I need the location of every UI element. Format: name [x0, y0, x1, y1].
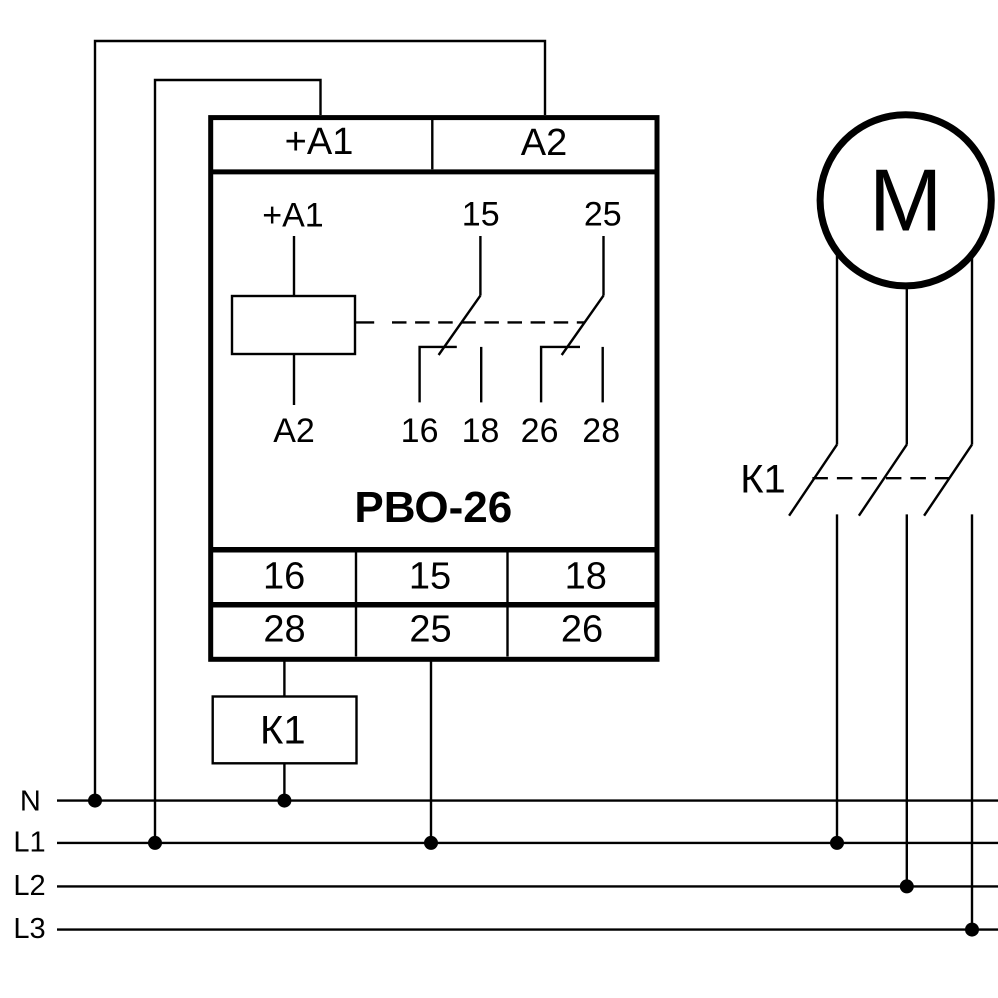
junction dot K1/N — [277, 794, 291, 808]
svg-text:РВО-26: РВО-26 — [354, 483, 512, 532]
wire terminal 18 stub — [480, 347, 482, 403]
svg-text:+A1: +A1 — [262, 196, 323, 234]
svg-text:L3: L3 — [13, 913, 45, 945]
svg-text:A2: A2 — [273, 412, 315, 450]
relay coil — [232, 296, 355, 354]
wire terminal 28 to K1 coil — [283, 660, 285, 697]
wire coil bottom lead — [293, 354, 295, 405]
wire motor phase 1 — [836, 250, 838, 445]
wire pole 3 to L3 — [971, 514, 973, 929]
wire terminal 25 to L1 bus — [430, 660, 432, 843]
svg-text:28: 28 — [263, 608, 305, 650]
coil side lead stub — [356, 321, 375, 323]
wire motor phase 3 — [971, 252, 973, 445]
svg-text:L2: L2 — [13, 870, 45, 902]
svg-text:28: 28 — [582, 412, 620, 450]
terminal table column divider 2 — [506, 553, 508, 657]
svg-text:+A1: +A1 — [285, 121, 354, 163]
terminal table row divider — [211, 602, 657, 608]
wire terminal 16 branch — [420, 347, 457, 403]
junction dot pole2/L2 — [900, 879, 914, 893]
wire terminal 26 branch — [541, 347, 580, 403]
bus line L1 — [57, 842, 998, 844]
terminal table top edge — [211, 547, 657, 553]
contactor K1 pole 3 blade — [924, 445, 972, 516]
svg-text:К1: К1 — [740, 458, 786, 502]
junction dot pole3/L3 — [965, 923, 979, 937]
junction dot 25/L1 — [424, 836, 438, 850]
svg-text:16: 16 — [401, 412, 439, 450]
junction dot W2/L1 — [148, 836, 162, 850]
wire from N bus up and over to terminal A2 — [95, 41, 545, 801]
wire from L1 bus up and over to terminal +A1 — [155, 80, 321, 843]
contactor K1 pole 2 blade — [859, 445, 907, 516]
svg-text:N: N — [20, 786, 41, 818]
svg-text:К1: К1 — [260, 708, 306, 752]
svg-text:A2: A2 — [521, 122, 567, 164]
svg-text:M: M — [869, 151, 942, 250]
contactor coil K1 box — [213, 697, 357, 764]
terminal band separator — [211, 169, 657, 174]
svg-text:25: 25 — [584, 196, 622, 234]
svg-text:15: 15 — [409, 556, 451, 598]
contactor K1 pole 1 blade — [789, 445, 837, 516]
terminal table column divider 1 — [355, 553, 357, 657]
bus line L3 — [57, 928, 998, 930]
wire motor phase 2 — [906, 286, 908, 444]
wire pole 2 to L2 — [906, 514, 908, 886]
svg-text:16: 16 — [263, 556, 305, 598]
contact blade 25 — [562, 296, 604, 355]
svg-text:15: 15 — [462, 196, 500, 234]
svg-text:L1: L1 — [13, 826, 45, 858]
svg-text:25: 25 — [409, 608, 451, 650]
mechanical link (dashed) — [392, 321, 584, 323]
contact blade 15 — [439, 296, 481, 355]
contactor K1 mechanical link (dashed) — [812, 477, 949, 479]
wire coil top lead — [293, 236, 295, 296]
svg-text:26: 26 — [561, 608, 603, 650]
wire pole 1 to L1 — [836, 514, 838, 843]
wire terminal 28 stub — [602, 347, 604, 403]
terminal band divider — [431, 120, 433, 169]
wire K1 coil to N bus — [283, 763, 285, 800]
svg-text:26: 26 — [521, 412, 559, 450]
bus line N — [57, 799, 998, 801]
junction dot pole1/L1 — [830, 836, 844, 850]
svg-text:18: 18 — [565, 556, 607, 598]
wire contact 15 lead — [479, 236, 481, 296]
wire contact 25 lead — [602, 236, 604, 296]
bus line L2 — [57, 885, 998, 887]
relay U1 (PBO-26) outline — [211, 118, 657, 660]
motor M1 circle — [820, 115, 991, 286]
junction dot W1/N — [88, 794, 102, 808]
svg-text:18: 18 — [462, 412, 500, 450]
